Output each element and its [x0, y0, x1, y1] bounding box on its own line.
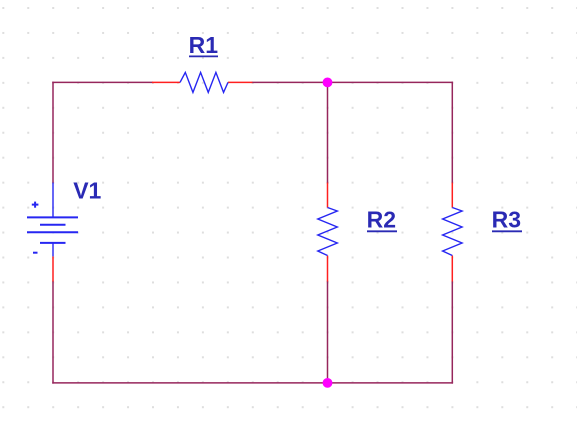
- svg-text:R1: R1: [189, 32, 219, 58]
- svg-text:V1: V1: [73, 178, 101, 204]
- svg-text:R2: R2: [367, 206, 396, 232]
- svg-text:R3: R3: [492, 206, 521, 232]
